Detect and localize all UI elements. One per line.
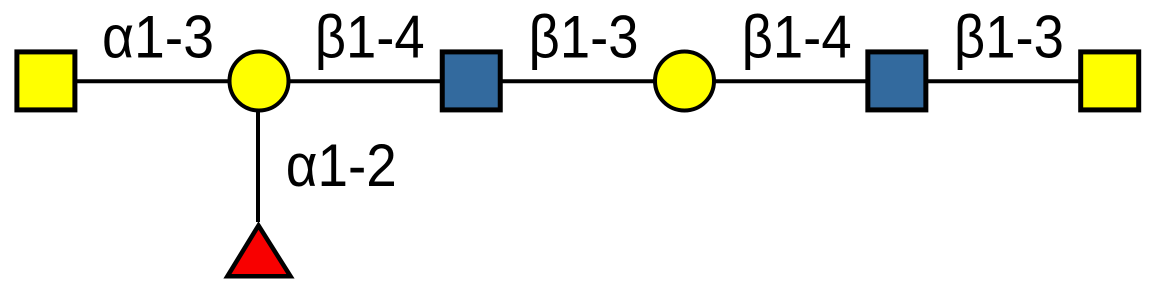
branch wire <box>256 81 260 222</box>
svg-text:β1-3: β1-3 <box>954 4 1064 71</box>
Fuc red triangle <box>227 226 290 277</box>
GlcNAc blue square 2 <box>868 52 926 110</box>
GlcNAc blue square 1 <box>442 52 500 110</box>
Gal yellow circle 2 <box>655 52 714 111</box>
backbone wire <box>46 79 1110 83</box>
svg-text:α1-2: α1-2 <box>286 132 397 199</box>
svg-text:β1-4: β1-4 <box>315 4 425 71</box>
svg-text:β1-3: β1-3 <box>529 4 639 71</box>
Gal yellow square left <box>17 52 75 110</box>
Gal yellow circle 1 <box>230 52 289 111</box>
svg-text:α1-3: α1-3 <box>102 4 214 71</box>
Gal yellow square right <box>1081 52 1139 110</box>
svg-text:β1-4: β1-4 <box>742 4 852 71</box>
